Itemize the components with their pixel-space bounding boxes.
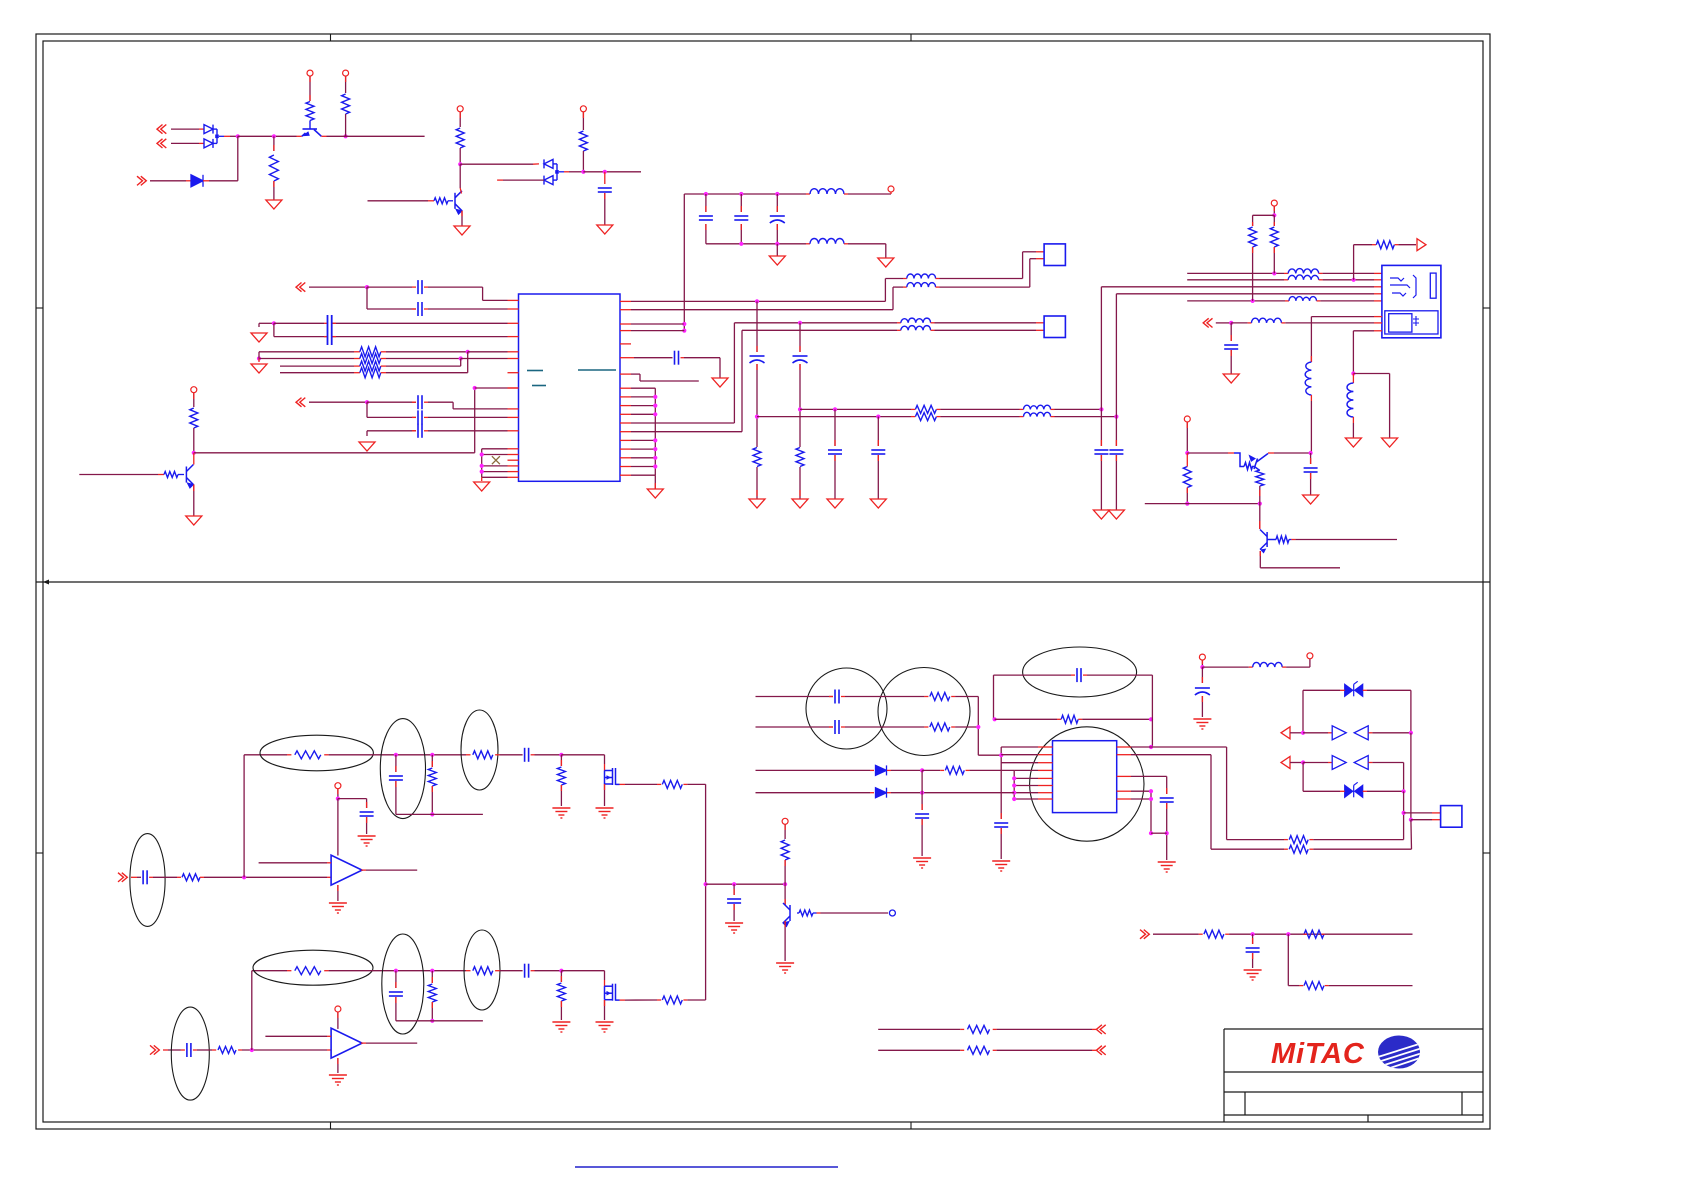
resistor R2 xyxy=(306,102,314,121)
capacitor C27 xyxy=(727,899,741,903)
junction xyxy=(775,192,779,196)
pin stub xyxy=(966,769,970,771)
wire xyxy=(1000,747,1002,819)
wire xyxy=(481,477,483,481)
pin stub xyxy=(705,224,707,230)
pin stub xyxy=(508,430,519,432)
junction xyxy=(459,356,463,360)
wire xyxy=(467,352,469,373)
pin stub xyxy=(960,1028,964,1030)
wire xyxy=(244,754,287,756)
wire xyxy=(1131,798,1151,800)
pin stub xyxy=(1000,813,1002,819)
wire xyxy=(969,769,1014,771)
wire xyxy=(1302,690,1304,733)
footer link line xyxy=(575,1166,838,1168)
ground xyxy=(251,333,267,342)
resistor R4 xyxy=(456,128,464,148)
wire xyxy=(274,322,324,324)
wire xyxy=(482,471,508,473)
wire xyxy=(337,1058,339,1073)
capacitor C3 xyxy=(418,302,422,316)
pin stub xyxy=(776,206,778,212)
pin stub xyxy=(1038,762,1053,764)
inductor L14 xyxy=(1347,383,1353,417)
highlight ellipse xyxy=(382,934,424,1034)
wire xyxy=(461,358,508,360)
pin stub xyxy=(1291,539,1295,541)
junction xyxy=(336,797,340,801)
junction xyxy=(833,407,837,411)
wire xyxy=(428,308,508,310)
wire xyxy=(1253,214,1275,216)
pin stub xyxy=(1228,452,1234,454)
pin stub xyxy=(1303,933,1307,935)
ground xyxy=(552,1022,570,1032)
transistor Q3 xyxy=(186,465,193,485)
pin stub xyxy=(1319,279,1323,281)
pin stub xyxy=(887,769,891,771)
input chevron xyxy=(296,283,305,292)
input chevron xyxy=(137,176,146,185)
wire xyxy=(366,431,368,436)
wire xyxy=(784,824,786,839)
pin stub xyxy=(345,76,347,82)
junction xyxy=(1402,789,1406,793)
wire xyxy=(428,286,483,288)
resistor R14 xyxy=(1270,227,1278,247)
wire xyxy=(1353,245,1355,280)
pin stub xyxy=(1273,247,1275,253)
wire xyxy=(368,200,429,202)
ground xyxy=(358,836,376,846)
ground xyxy=(552,808,570,818)
pin stub xyxy=(620,405,631,407)
resistor R10 xyxy=(796,448,804,467)
pin stub xyxy=(870,769,874,771)
resistor R19 xyxy=(182,874,200,881)
resistor R3 xyxy=(342,94,350,114)
pin stub xyxy=(924,726,928,728)
resistor R39 xyxy=(1204,930,1224,938)
pin stub xyxy=(186,180,191,182)
pin stub xyxy=(203,180,209,182)
wire xyxy=(1290,762,1303,764)
pin stub xyxy=(1020,416,1024,418)
wire xyxy=(776,244,778,256)
wire xyxy=(892,287,894,310)
pin stub xyxy=(1230,335,1232,341)
junction xyxy=(999,753,1003,757)
pin stub xyxy=(940,769,944,771)
wire xyxy=(1303,790,1340,792)
wire xyxy=(604,1000,606,1020)
resistor R37 xyxy=(1289,836,1308,844)
resistor R30 xyxy=(662,996,682,1004)
wire xyxy=(366,287,368,309)
wire xyxy=(428,430,508,432)
wire xyxy=(1353,373,1389,375)
input chevron xyxy=(1140,930,1149,939)
pin stub xyxy=(1038,754,1053,756)
pin stub xyxy=(560,976,562,982)
pin stub xyxy=(1166,803,1168,809)
power pin xyxy=(782,818,788,824)
wire xyxy=(1187,272,1284,274)
wire xyxy=(813,912,817,914)
power pin xyxy=(307,70,313,76)
wire xyxy=(705,194,707,212)
wire xyxy=(153,876,177,878)
pin stub xyxy=(1368,762,1372,764)
pin stub xyxy=(921,819,923,825)
connector J3 lower glyph xyxy=(1413,316,1419,326)
pin stub xyxy=(1328,732,1332,734)
wire xyxy=(237,136,239,181)
pin stub xyxy=(424,308,428,310)
wire xyxy=(500,970,523,972)
wire xyxy=(1286,666,1310,668)
pin stub xyxy=(1115,455,1117,461)
capacitor C4 xyxy=(328,315,332,345)
pin stub xyxy=(681,357,685,359)
pin stub xyxy=(1432,812,1441,814)
resistor R25 xyxy=(218,1047,236,1054)
wire xyxy=(1252,934,1254,944)
resistor R8 xyxy=(164,472,178,478)
junction xyxy=(1099,407,1103,411)
pin stub xyxy=(1166,788,1168,794)
wire xyxy=(1187,300,1285,302)
pin stub xyxy=(1321,933,1324,935)
diode D7 xyxy=(876,788,887,798)
pin stub xyxy=(844,193,848,195)
resistor RN4 xyxy=(360,368,381,378)
wire xyxy=(654,475,656,489)
wire xyxy=(251,971,253,1050)
wire xyxy=(468,351,508,353)
highlight ellipse xyxy=(380,719,425,819)
ground xyxy=(1093,510,1109,519)
pin stub xyxy=(560,785,562,791)
ground xyxy=(1345,438,1361,447)
wire xyxy=(978,754,1001,756)
pin stub xyxy=(1038,798,1053,800)
pin stub xyxy=(354,358,360,360)
wire xyxy=(799,364,801,447)
pin stub xyxy=(1038,746,1053,748)
junction xyxy=(653,395,657,399)
resistor R34 xyxy=(930,723,950,731)
pin stub xyxy=(560,760,562,766)
junction xyxy=(1309,451,1313,455)
pin stub xyxy=(354,351,360,353)
pin stub xyxy=(177,876,181,878)
wire xyxy=(252,970,287,972)
junction xyxy=(1165,831,1169,835)
wire xyxy=(265,1035,327,1037)
pin stub xyxy=(1372,244,1376,246)
wire xyxy=(631,405,655,407)
wire xyxy=(1013,769,1015,771)
junction xyxy=(466,350,470,354)
pin stub xyxy=(1284,839,1288,841)
wire xyxy=(461,211,463,226)
pin stub xyxy=(960,1049,964,1051)
diode junction xyxy=(215,135,219,139)
pin stub xyxy=(1057,718,1061,720)
wire xyxy=(1303,689,1340,691)
highlight circle xyxy=(1030,727,1144,841)
wire xyxy=(1274,452,1311,454)
output port xyxy=(889,910,895,916)
capacitor C10 (polarized) xyxy=(770,216,785,223)
pin stub xyxy=(461,211,463,216)
wire xyxy=(940,286,1030,288)
wire xyxy=(640,380,699,382)
pin stub xyxy=(1117,775,1131,777)
wire xyxy=(776,194,778,212)
power pin xyxy=(888,186,894,192)
ground xyxy=(596,1022,614,1032)
pin stub xyxy=(424,286,428,288)
ground xyxy=(359,442,375,451)
wire xyxy=(1201,667,1203,683)
wire xyxy=(891,769,922,771)
wire xyxy=(213,142,217,144)
sheet border outer xyxy=(36,34,1490,1129)
connector J1 xyxy=(1044,244,1065,266)
wire xyxy=(1115,294,1117,446)
wire xyxy=(386,365,461,367)
wire xyxy=(1186,488,1188,504)
wire xyxy=(631,373,640,375)
pin stub xyxy=(1259,521,1261,529)
wire xyxy=(1310,473,1312,495)
junction xyxy=(480,470,484,474)
wire xyxy=(631,323,684,325)
wire xyxy=(799,467,801,499)
pin stub xyxy=(1078,718,1082,720)
junction xyxy=(250,1048,254,1052)
capacitor C12 (polarized) xyxy=(750,356,765,363)
border tick xyxy=(910,34,912,41)
wire xyxy=(683,194,685,331)
wire xyxy=(634,357,673,359)
pin stub xyxy=(1100,440,1102,446)
resistor R22 xyxy=(428,768,436,786)
pin stub xyxy=(1299,985,1303,987)
wire xyxy=(997,1028,1092,1030)
wire xyxy=(1151,675,1153,747)
resistor R35 xyxy=(1061,715,1078,723)
wire xyxy=(800,408,911,410)
wire xyxy=(631,309,893,311)
pin stub xyxy=(620,466,631,468)
pin stub xyxy=(829,696,833,698)
pin stub xyxy=(1328,762,1332,764)
wire xyxy=(309,401,367,403)
pin stub xyxy=(508,387,519,389)
pin stub xyxy=(604,764,606,771)
wire xyxy=(1013,770,1015,799)
junction xyxy=(1286,932,1290,936)
junction xyxy=(1409,818,1413,822)
resistor R15 xyxy=(1376,241,1394,249)
wire xyxy=(193,393,195,407)
input chevron xyxy=(157,125,166,134)
wire xyxy=(204,876,327,878)
wire xyxy=(1101,286,1374,288)
wire xyxy=(1227,839,1284,841)
wire xyxy=(481,449,483,478)
pin stub xyxy=(740,206,742,212)
wire xyxy=(1000,828,1002,859)
wire xyxy=(171,128,199,130)
pin stub xyxy=(337,789,339,794)
wire xyxy=(631,413,655,415)
junction xyxy=(430,969,434,973)
wire xyxy=(193,485,195,517)
wire xyxy=(535,970,562,972)
wire xyxy=(243,755,245,878)
wire xyxy=(395,755,397,772)
wire xyxy=(329,754,466,756)
transistor Q6 xyxy=(783,903,790,923)
inductor L1 xyxy=(810,189,844,194)
pin stub xyxy=(1325,985,1329,987)
junction xyxy=(920,791,924,795)
pin stub xyxy=(508,471,519,473)
wire xyxy=(604,193,606,225)
TVS diode D13 xyxy=(1345,782,1363,797)
pin stub xyxy=(309,76,311,82)
junction xyxy=(1229,321,1233,325)
wire xyxy=(259,358,354,360)
wire xyxy=(1082,718,1151,720)
pin stub xyxy=(1038,777,1053,779)
pin stub xyxy=(784,921,786,927)
pin stub xyxy=(337,885,339,891)
junction xyxy=(458,162,462,166)
wire xyxy=(997,1049,1092,1051)
wire xyxy=(209,180,238,182)
wire xyxy=(756,726,834,728)
wire xyxy=(1352,331,1354,374)
pin stub xyxy=(1186,422,1188,428)
wire xyxy=(482,465,508,467)
diode pair D9/D10 xyxy=(1332,726,1368,740)
junction xyxy=(653,404,657,408)
wire xyxy=(1055,408,1102,410)
pin stub xyxy=(903,286,907,288)
wire xyxy=(1313,839,1403,841)
pin stub xyxy=(834,455,836,461)
junction xyxy=(1272,271,1276,275)
pin stub xyxy=(931,329,935,331)
wire xyxy=(259,351,354,353)
wire xyxy=(448,200,453,202)
resistor RN3 xyxy=(360,361,381,371)
input chevron xyxy=(157,139,166,148)
wire xyxy=(1187,452,1228,454)
MiTAC globe xyxy=(1378,1036,1422,1071)
pin stub xyxy=(366,802,368,808)
wire xyxy=(1313,848,1411,850)
wire xyxy=(1087,674,1152,676)
junction xyxy=(1352,278,1356,282)
wire xyxy=(631,330,684,332)
pin stub xyxy=(1259,551,1261,556)
pin stub xyxy=(657,999,661,1001)
wire xyxy=(459,148,461,164)
wire xyxy=(274,336,328,338)
wire xyxy=(1363,689,1367,691)
wire xyxy=(639,374,641,381)
pin stub xyxy=(1036,322,1044,324)
pin stub xyxy=(924,696,928,698)
power pin xyxy=(1307,653,1313,659)
pin stub xyxy=(931,322,935,324)
pin stub xyxy=(1281,322,1285,324)
resistor R36 xyxy=(945,766,964,774)
wire xyxy=(604,172,606,184)
pin stub xyxy=(993,1049,997,1051)
wire xyxy=(386,372,468,374)
pin stub xyxy=(1284,272,1288,274)
wire xyxy=(366,799,368,808)
resistor R38 xyxy=(1289,845,1308,853)
wire xyxy=(309,286,367,288)
wire xyxy=(332,336,508,338)
pin stub xyxy=(1374,316,1382,318)
input chevron xyxy=(1203,318,1212,327)
highlight circle xyxy=(878,668,970,756)
wire xyxy=(503,179,544,181)
ground xyxy=(251,364,267,373)
wire xyxy=(776,224,778,244)
pin stub xyxy=(508,465,519,467)
wire xyxy=(1131,754,1211,756)
pin stub xyxy=(361,869,366,871)
capacitor C8 xyxy=(699,216,713,220)
pin stub xyxy=(193,393,195,399)
wire xyxy=(309,121,311,130)
power pin xyxy=(1199,654,1205,660)
wire xyxy=(845,696,924,698)
ground xyxy=(1193,719,1211,729)
pin stub xyxy=(620,300,631,302)
wire xyxy=(395,997,397,1021)
wire xyxy=(1001,746,1038,748)
wire xyxy=(168,1049,181,1051)
border tick xyxy=(330,34,332,41)
wire xyxy=(742,329,897,331)
pin stub xyxy=(1284,848,1288,850)
pin stub xyxy=(309,95,311,101)
wire xyxy=(197,1049,212,1051)
highlight ellipse xyxy=(461,710,498,790)
pin stub xyxy=(324,970,328,972)
wire xyxy=(535,754,562,756)
ground xyxy=(1223,374,1239,383)
IC U1 label dash xyxy=(578,369,616,371)
IC U1 xyxy=(519,294,621,481)
wire xyxy=(995,718,1057,720)
wire xyxy=(428,401,453,403)
wire xyxy=(1367,689,1411,691)
pin stub xyxy=(158,474,164,476)
